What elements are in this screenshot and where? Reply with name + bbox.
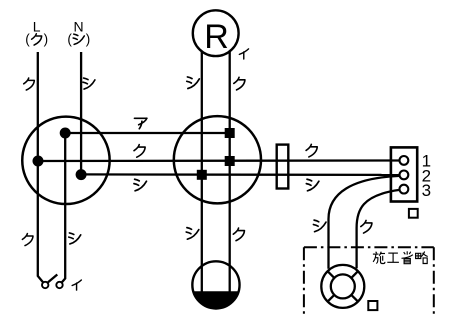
svg-text:): ) bbox=[86, 32, 91, 47]
svg-text:R: R bbox=[204, 18, 229, 56]
wire A horizontal (switched live) bbox=[65, 132, 230, 134]
terminal 3 circle bbox=[400, 185, 409, 194]
wire switch return vertical bbox=[62, 133, 66, 283]
lamp receptacle R circle bbox=[193, 10, 239, 56]
ceiling light fixture circle bbox=[192, 261, 239, 308]
outlet spoke SW bbox=[328, 295, 335, 302]
junction box left circle bbox=[22, 117, 109, 204]
junction box middle circle bbox=[174, 116, 261, 203]
switch terminal right bbox=[56, 282, 62, 288]
label ク right of connector bbox=[306, 144, 317, 157]
switch blade bbox=[48, 275, 58, 283]
svg-text:3: 3 bbox=[422, 181, 431, 200]
label シ switch right wire bbox=[69, 233, 81, 244]
node square A-R junction bbox=[225, 128, 235, 138]
label (ク) under L bbox=[25, 32, 48, 47]
terminal block device square symbol bbox=[409, 209, 418, 218]
terminal 2 circle bbox=[400, 171, 409, 180]
svg-text:L: L bbox=[33, 19, 41, 35]
label シ R left wire bbox=[187, 77, 200, 89]
label シ wire shi mid bbox=[134, 179, 147, 191]
label ア wire A bbox=[134, 118, 146, 128]
wire shi horizontal (neutral feed) bbox=[81, 173, 399, 176]
label シ on N wire bbox=[83, 78, 95, 89]
outlet device square symbol bbox=[368, 301, 377, 310]
node square shi junction bbox=[197, 170, 207, 180]
wire ku curve to terminal 3 bbox=[357, 190, 400, 269]
label ク wire ku mid bbox=[134, 145, 145, 158]
outlet spoke SE bbox=[351, 295, 358, 302]
label ク switch left wire bbox=[22, 234, 33, 246]
label シ curve wire bbox=[313, 220, 326, 232]
ceiling light filled base bbox=[193, 291, 239, 308]
label 施工省略 bbox=[373, 251, 428, 263]
svg-text:(: ( bbox=[67, 32, 72, 47]
wire L vertical (cable ku) bbox=[38, 52, 43, 283]
node dot junction A bbox=[60, 128, 71, 139]
outlet receptacle inner circle bbox=[331, 274, 355, 298]
label (シ) under N bbox=[67, 32, 90, 47]
node dot junction neutral bbox=[76, 169, 87, 180]
outlet receptacle outer circle bbox=[321, 265, 364, 308]
switch terminal left bbox=[42, 282, 48, 288]
node dot junction live bbox=[33, 156, 44, 167]
label ク ceiling right wire bbox=[233, 228, 244, 241]
dashed construction-omitted box bbox=[304, 247, 434, 317]
wire R left vertical down to ceiling light bbox=[201, 51, 203, 293]
wire ku horizontal (live feed) bbox=[38, 159, 399, 162]
label イ at R bbox=[239, 49, 248, 59]
label シ right of connector bbox=[306, 179, 319, 191]
svg-text:): ) bbox=[44, 32, 49, 47]
terminal 1 circle bbox=[400, 156, 409, 165]
outlet spoke NW bbox=[328, 271, 335, 278]
label ク curve wire bbox=[361, 220, 372, 233]
label シ ceiling left wire bbox=[186, 228, 199, 240]
cable connector rect bbox=[277, 145, 289, 189]
svg-text:(: ( bbox=[25, 32, 30, 47]
label ク on L wire bbox=[24, 78, 35, 90]
label イ switch bbox=[72, 280, 81, 290]
wire N vertical (cable shi) bbox=[80, 52, 82, 175]
wire R right vertical down to ceiling light bbox=[229, 51, 231, 293]
terminal block rect bbox=[391, 147, 417, 201]
node square ku junction bbox=[225, 156, 235, 166]
svg-text:N: N bbox=[74, 19, 84, 35]
outlet spoke NE bbox=[351, 271, 358, 278]
wire shi curve to terminal 2 bbox=[329, 176, 400, 269]
label ク R right wire bbox=[234, 77, 245, 90]
